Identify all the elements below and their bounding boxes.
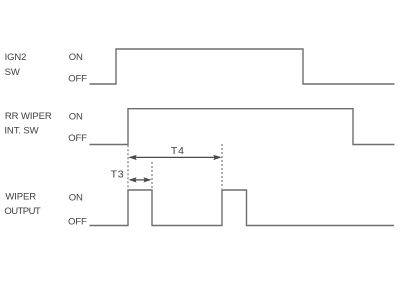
svg-text:SW: SW — [5, 67, 20, 78]
svg-text:RR WIPER: RR WIPER — [5, 111, 52, 122]
svg-text:OFF: OFF — [68, 133, 87, 144]
dashed guide line at T3 end x=152 — [151, 162, 153, 190]
dimension arrow T3 — [129, 177, 152, 182]
wire WIPER OUTPUT waveform with two pulses — [90, 190, 395, 226]
label WIPER OUTPUT — [4, 191, 41, 217]
label RR WIPER INT. SW — [4, 111, 51, 137]
svg-text:WIPER: WIPER — [5, 191, 36, 202]
dimension arrow T4 — [128, 155, 221, 160]
dashed guide line at T4 end x=222 — [221, 144, 223, 189]
svg-text:ON: ON — [69, 111, 83, 122]
svg-text:OFF: OFF — [68, 74, 87, 85]
svg-text:IGN2: IGN2 — [5, 52, 27, 63]
wire IGN2 SW waveform — [90, 49, 395, 84]
svg-text:OUTPUT: OUTPUT — [4, 206, 41, 217]
svg-text:INT. SW: INT. SW — [4, 126, 38, 137]
svg-text:T3: T3 — [111, 169, 125, 181]
wire RR WIPER INT. SW waveform — [90, 109, 395, 145]
svg-text:ON: ON — [69, 52, 83, 63]
svg-text:T4: T4 — [171, 145, 185, 157]
dashed guide line at T4 start x=128 — [127, 145, 129, 189]
label IGN2 SW — [5, 52, 27, 78]
svg-text:OFF: OFF — [68, 217, 87, 228]
svg-text:ON: ON — [69, 192, 83, 203]
